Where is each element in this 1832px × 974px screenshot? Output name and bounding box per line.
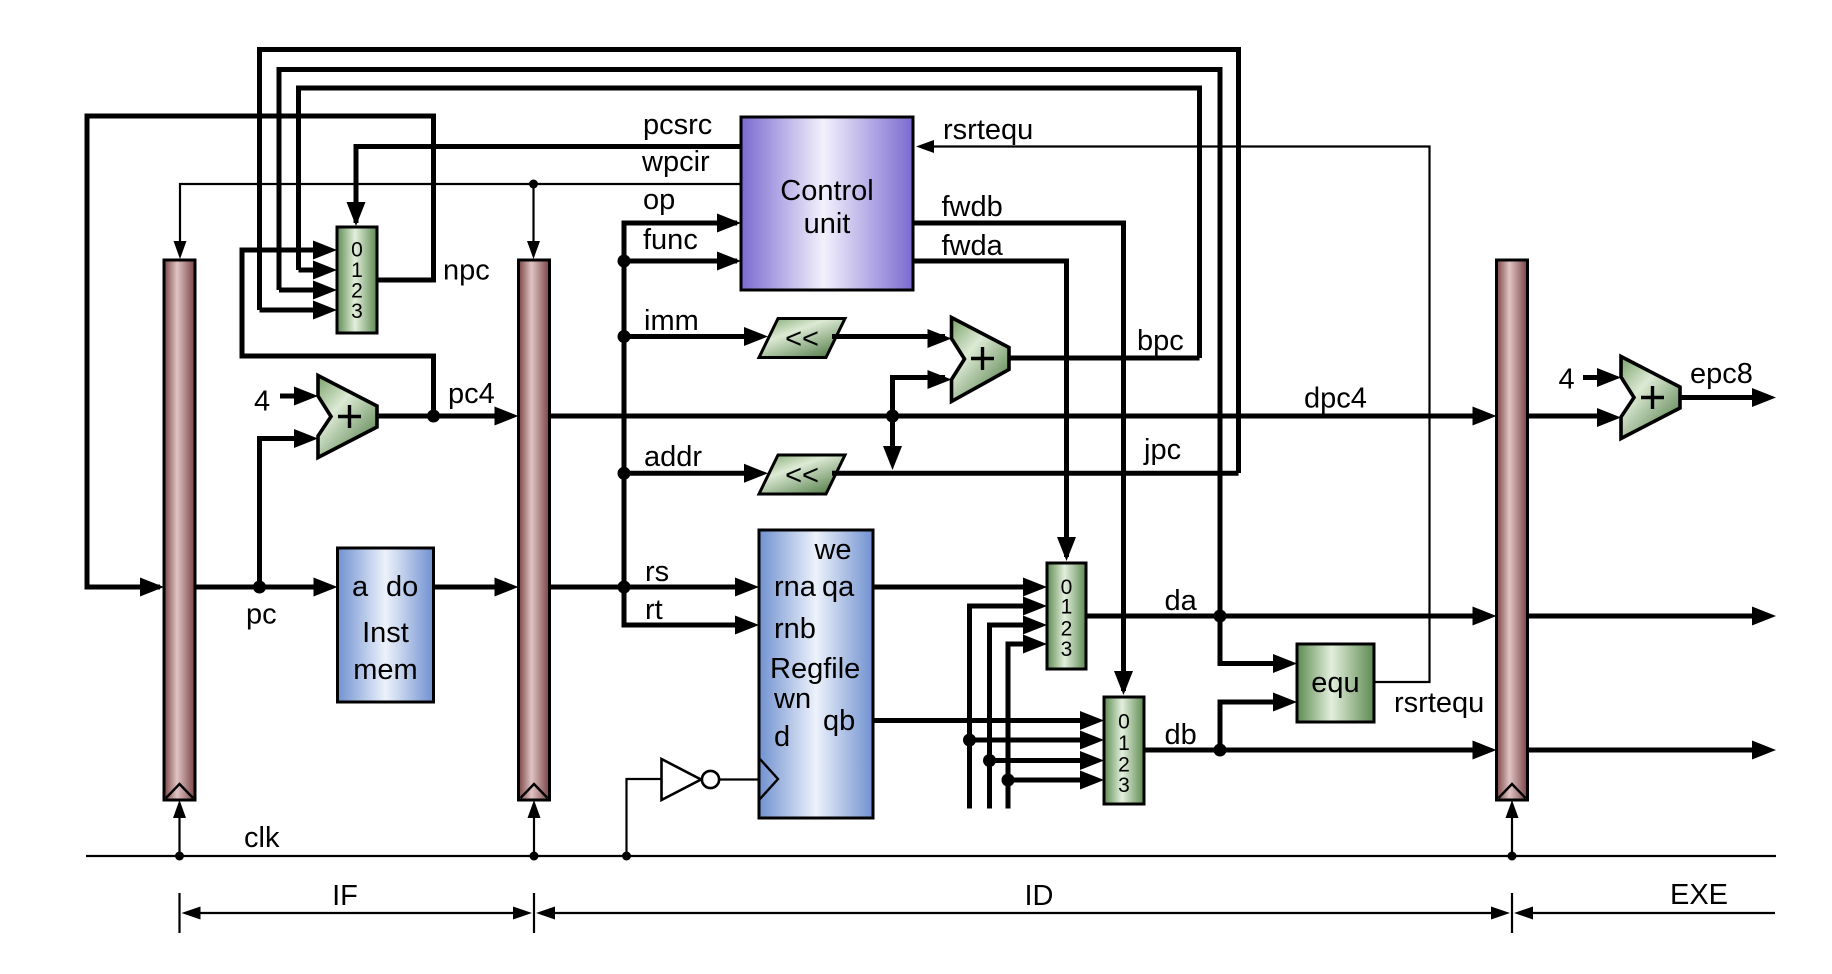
shifter imm left-shift [759,319,845,358]
label db [1165,719,1197,751]
label pc [246,599,277,631]
wire mem forward to da mux input2 [990,616,1048,809]
wire fwdb (control to db mux select) [913,223,1133,695]
stage span IF [182,907,533,920]
wire wb forward to db mux input3 [1002,771,1105,790]
wire instruction (inst mem to IF/ID register) [434,578,519,597]
wire mem forward to db mux input2 [983,751,1104,770]
wire pc branch to pc4 adder [260,429,319,587]
svg-text:fwdb: fwdb [942,191,1003,223]
svg-text:Control: Control [780,175,874,207]
label jpc [1143,434,1181,466]
adder pc4 (pc plus 4) [318,376,377,458]
svg-text:mem: mem [353,654,417,686]
svg-text:rs: rs [645,556,669,588]
wire qb (regfile to db mux input0) [873,711,1104,730]
wire exe forward to da mux input1 [970,597,1048,809]
wire bpc to npc mux input1 [299,261,338,280]
svg-text:do: do [386,571,418,603]
label epc8 [1690,358,1753,390]
svg-text:jpc: jpc [1143,434,1181,466]
stage span ID [536,907,1510,920]
stage tick ID/EXE [1511,893,1513,933]
svg-text:EXE: EXE [1670,879,1728,911]
label npc [443,255,490,287]
mux npc (next pc select) [337,227,377,333]
label EXE [1670,879,1728,911]
svg-text:pcsrc: pcsrc [643,109,712,141]
stage tick IF/ID [533,893,535,933]
wire jpc to npc mux input3 [260,301,338,320]
wire da to EXE stage [1528,607,1777,626]
svg-text:equ: equ [1311,667,1359,699]
svg-text:1: 1 [1118,732,1130,755]
wire da (da mux to ID/EXE register) [1086,607,1497,626]
svg-text:4: 4 [254,386,270,418]
svg-text:npc: npc [443,255,490,287]
label dpc4 [1304,383,1367,415]
wire func (instruction funct to control) [618,252,742,271]
wire npc to pc register [87,116,434,597]
svg-text:clk: clk [244,822,280,854]
label 4 (pc4 adder) [254,386,270,418]
wire exe forward to db mux input1 [963,731,1104,750]
control unit [741,117,913,290]
label fwdb [942,191,1003,223]
svg-text:<<: << [785,460,819,492]
label rs [645,556,669,588]
svg-text:fwda: fwda [942,230,1004,262]
stage span EXE [1514,907,1775,920]
svg-text:imm: imm [644,305,699,337]
wire db (db mux to ID/EXE register) [1143,741,1497,760]
equ (register compare) [1297,644,1374,722]
label IF [332,880,358,912]
wire clk to inverter [622,779,662,861]
svg-text:pc4: pc4 [448,378,495,410]
wire clk [86,852,1776,861]
wire qa (regfile to da mux input0) [873,578,1047,597]
wire constant 4 to epc8 adder [1583,368,1621,387]
wire imm (immediate to shifter) [618,327,769,346]
label bpc [1137,325,1184,357]
wire dpc4 to epc8 adder [1528,408,1622,427]
wire db to EXE stage [1528,741,1777,760]
svg-text:we: we [813,534,851,566]
wire wpcir (control to pc/ifid write enable) [174,180,742,260]
wire fwda (control to da mux select) [913,261,1076,561]
wire op (instruction opcode to control) [624,214,741,262]
pipeline register IF/ID [519,260,550,800]
svg-text:db: db [1165,719,1197,751]
wire wb forward to da mux input3 [1008,635,1047,809]
label ID [1025,880,1054,912]
label pcsrc [643,109,712,141]
inst mem (instruction memory) [338,548,434,702]
wire da branch to equ [1220,616,1297,673]
regfile clock chevron [759,758,778,800]
label 4 (epc8 adder) [1559,364,1575,396]
wire da feedback (top middle loop) [279,70,1220,617]
wire pc4 (adder to IF/ID register) [377,407,519,426]
svg-text:1: 1 [1061,596,1073,619]
wire shifted imm to bpc adder [832,329,952,348]
wire jpc feedback (top outer loop) [260,50,1239,474]
label da [1165,585,1198,617]
svg-text:addr: addr [644,441,702,473]
svg-text:rna: rna [774,571,817,603]
label wpcir [641,146,710,178]
pipeline register ID/EXE [1497,260,1528,800]
svg-text:rsrtequ: rsrtequ [943,114,1033,146]
svg-text:bpc: bpc [1137,325,1184,357]
label clk [244,822,280,854]
wire rt (to regfile rnb) [624,587,759,635]
pipeline register IF (pc) [164,260,195,800]
svg-text:func: func [643,224,698,256]
wire pc4 branch to bpc adder [886,370,952,423]
wire epc8 output [1680,388,1776,407]
svg-text:3: 3 [351,300,363,323]
label op [643,184,675,216]
label addr [644,441,702,473]
wire constant 4 to pc4 adder [280,387,318,406]
wire bpc feedback (top inner loop) [299,88,1200,358]
svg-text:Inst: Inst [362,617,409,649]
svg-text:epc8: epc8 [1690,358,1753,390]
wire bpc (adder output) [1009,356,1200,361]
svg-text:0: 0 [1118,711,1130,734]
svg-text:rnb: rnb [774,613,816,645]
svg-text:dpc4: dpc4 [1304,383,1367,415]
wire jpc (shifted addr to npc mux) [832,471,1239,476]
wire pc (IF register to inst mem) [195,578,338,597]
wire db branch to equ [1220,693,1297,751]
svg-text:rsrtequ: rsrtequ [1394,687,1484,719]
label rsrtequ (at equ) [1394,687,1484,719]
svg-text:unit: unit [804,208,851,240]
svg-text:op: op [643,184,675,216]
wire addr (jump address to shifter) [618,464,769,483]
wire pcsrc (control to npc mux select) [347,147,742,227]
svg-text:4: 4 [1559,364,1575,396]
wire clk to ID/EXE register [1506,800,1519,856]
wire rsrtequ (equ to control unit) [916,140,1430,682]
svg-text:IF: IF [332,880,358,912]
svg-text:a: a [352,571,369,603]
mux db (operand B select) [1104,697,1144,804]
adder epc8 (exception pc plus 8) [1621,357,1680,439]
label pc4 [448,378,495,410]
svg-text:wpcir: wpcir [641,146,710,178]
wire clk to IF register [173,800,186,856]
shifter addr left-shift [759,455,845,494]
label func [643,224,698,256]
wire da to npc mux input2 [279,281,337,300]
label rsrtequ (top) [943,114,1033,146]
svg-text:3: 3 [1061,638,1073,661]
svg-text:3: 3 [1118,774,1130,797]
wire clk to IF/ID register [528,800,541,856]
label rt [645,594,663,626]
wire dpc4 (pc4 through ID stage) [550,407,1497,426]
wire rs (to regfile rna) [550,578,760,597]
svg-text:<<: << [785,323,819,355]
svg-text:da: da [1165,585,1198,617]
svg-text:pc: pc [246,599,277,631]
svg-text:qa: qa [822,571,855,603]
wire pc4 input0 branch to npc mux [242,241,434,417]
svg-text:wn: wn [773,683,811,715]
stage tick IF left [178,893,180,933]
not gate (inverted clock for regfile) [662,759,720,800]
svg-text:ID: ID [1025,880,1054,912]
svg-text:d: d [774,721,790,753]
wire pc4 high bits merge into jpc [883,416,902,470]
label imm [644,305,699,337]
svg-text:Regfile: Regfile [770,653,860,685]
label fwda [942,230,1004,262]
svg-text:rt: rt [645,594,663,626]
adder bpc (branch target) [952,318,1010,402]
wire inverter to regfile clock [719,778,759,780]
mux da (operand A select) [1047,563,1086,669]
svg-text:qb: qb [823,705,855,737]
regfile (register file) [759,530,873,818]
wire instruction field trunk [622,261,627,625]
